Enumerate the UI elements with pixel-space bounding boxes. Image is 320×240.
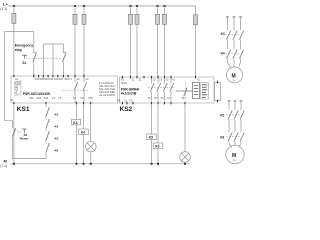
- svg-text:L+: L+: [3, 2, 8, 7]
- KS2 internal output contact 41-42: [170, 78, 174, 101]
- fuse F3: [82, 14, 86, 24]
- KS2 internal output contact 23-24: [157, 78, 161, 101]
- svg-text:A2: A2: [10, 98, 14, 102]
- dashed actuation line KS2 outputs: [148, 87, 174, 89]
- dashed linkage S1: [26, 57, 63, 59]
- svg-text:Y2: Y2: [58, 96, 62, 100]
- KS2 top terminal labels: [121, 78, 201, 82]
- wire M return rail: [11, 163, 191, 165]
- wire corner L+ rail down to KS2 right section: [195, 6, 197, 77]
- wire KS2 38 to lamp P2: [184, 104, 186, 152]
- svg-text:Y35: Y35: [88, 96, 93, 100]
- node L+ label: [0, 2, 8, 11]
- wire coil K5 to rail: [151, 140, 153, 164]
- wire reset loop top horizontal: [5, 31, 34, 33]
- svg-text:Y2: Y2: [129, 98, 133, 102]
- coil K6: [153, 143, 163, 149]
- wire lamp P1 to rail: [90, 152, 92, 164]
- fuse F7: [163, 14, 167, 24]
- wire S34 drop: [42, 44, 44, 76]
- motor M2: [226, 145, 244, 163]
- KS2 name: [121, 87, 140, 95]
- KS2 internal output contact 33-34: [163, 78, 167, 101]
- svg-text:(7.1): (7.1): [0, 164, 7, 168]
- KS2 internal coupling line: [176, 90, 193, 92]
- KS1 internal output contact 13-14: [74, 78, 78, 104]
- contact K5 power poles: [220, 111, 244, 120]
- motor branch 1 phase wires: [226, 16, 242, 18]
- KS2 internal logic box 2: [201, 83, 209, 100]
- switch S1 actuator: [22, 55, 27, 65]
- wire KS2 terminal 24 drop: [164, 6, 166, 77]
- svg-text:3~: 3~: [233, 78, 237, 82]
- wire 23 output drop: [83, 6, 85, 76]
- KS2 internal logic box 1: [193, 83, 200, 99]
- svg-text:K6: K6: [55, 148, 59, 152]
- KS1 top terminal ticks: [14, 75, 84, 78]
- lamp P2: [180, 152, 191, 163]
- svg-text:Emergency: Emergency: [15, 44, 33, 48]
- fuse F6: [156, 14, 160, 24]
- KS2 bottom terminal ticks: [122, 102, 185, 105]
- svg-text:K3: K3: [221, 32, 225, 36]
- contact S1 channel 1 (NC): [33, 32, 37, 77]
- svg-text:K6: K6: [220, 135, 224, 139]
- reset button S2 contact: [12, 121, 15, 159]
- wire coil K6 to rail: [157, 149, 159, 164]
- feedback contact K4: [46, 119, 59, 131]
- svg-text:S1: S1: [22, 61, 26, 65]
- wire lamp P2 to rail: [184, 162, 186, 164]
- wire reset loop left vertical: [4, 32, 6, 121]
- feedback contact K6: [46, 143, 59, 159]
- KS1 top terminal labels: [15, 77, 89, 81]
- svg-text:K3: K3: [55, 112, 59, 116]
- coil K5: [147, 134, 157, 140]
- wire S21 drop: [52, 44, 54, 76]
- KS1 internal table text: [99, 81, 116, 97]
- reset button S2 actuator: [14, 129, 28, 141]
- contact S1 channel 2 (NC): [62, 44, 66, 76]
- svg-text:KS2: KS2: [120, 106, 133, 113]
- wire 24 to coil K4: [83, 104, 85, 129]
- svg-text:KS1: KS1: [17, 106, 30, 113]
- KS1 left margin small text: [14, 80, 20, 97]
- KS1 bottom terminal labels: [10, 96, 93, 102]
- fuse F8 on KS2 right drop: [194, 15, 198, 25]
- svg-text:A2: A2: [117, 98, 121, 102]
- KS1 left margin divider: [20, 80, 22, 98]
- svg-text:3~: 3~: [233, 158, 237, 162]
- fuse F5: [135, 14, 139, 24]
- svg-text:K3: K3: [73, 121, 77, 125]
- wire KS2 terminal 12 drop: [136, 6, 138, 77]
- motor M1: [227, 67, 243, 83]
- svg-text:K5: K5: [220, 113, 224, 117]
- wire reset loop jog: [5, 121, 13, 127]
- svg-text:(1.1): (1.1): [0, 7, 7, 11]
- KS2 internal output contact 13-14: [150, 78, 154, 101]
- node M label: [0, 159, 7, 168]
- svg-text:K5: K5: [55, 136, 59, 140]
- motor branch 2 phase wires: [228, 100, 243, 102]
- svg-text:S12: S12: [29, 96, 34, 100]
- svg-text:Y1: Y1: [124, 98, 128, 102]
- svg-text:Y1: Y1: [52, 96, 56, 100]
- dashed actuation line KS1 outputs: [62, 90, 88, 92]
- svg-text:K4: K4: [81, 131, 85, 135]
- svg-text:S34: S34: [44, 96, 49, 100]
- svg-text:4x1/2x2/B: 4x1/2x2/B: [121, 92, 137, 96]
- KS2 top terminal ticks: [122, 76, 195, 79]
- svg-text:A1-A2 24VDC: A1-A2 24VDC: [99, 93, 115, 97]
- feedback contact K5: [46, 131, 59, 143]
- lamp P1: [86, 141, 97, 152]
- wire S-loop horizontal: [43, 43, 63, 45]
- KS2 bottom terminal labels: [117, 96, 185, 102]
- wire A2 to bottom rail: [13, 104, 15, 164]
- wire 13 output drop: [74, 6, 76, 76]
- KS1 internal output contact 23-24: [83, 78, 87, 104]
- wire KS2 terminal 23 drop: [157, 6, 159, 77]
- junction dots on L+ rail: [13, 5, 166, 7]
- contact K6 power poles: [220, 133, 244, 142]
- KS2 right narrow box: [215, 81, 221, 103]
- wire coil K4 to rail: [83, 135, 85, 164]
- contact K4 power poles: [221, 50, 244, 59]
- svg-text:Y1: Y1: [69, 77, 73, 81]
- svg-text:S22: S22: [37, 96, 42, 100]
- svg-text:(24V): (24V): [121, 81, 127, 85]
- fuse F1: [12, 13, 16, 23]
- wire 14 to coil K3: [75, 104, 77, 119]
- svg-text:Y2: Y2: [197, 78, 201, 82]
- relay block KS2 outline: [120, 77, 215, 103]
- svg-text:K6: K6: [155, 145, 159, 149]
- wire reset loop bottom horizontal: [12, 158, 46, 160]
- svg-text:stop: stop: [15, 48, 22, 52]
- svg-text:Reset: Reset: [20, 137, 28, 141]
- fuse F2: [73, 14, 77, 24]
- wire coil K3 to rail: [75, 125, 77, 164]
- wire A1 drop: [13, 6, 15, 76]
- feedback contact K3: [46, 107, 59, 119]
- wire KS2 24 to coil K6: [157, 104, 159, 143]
- KS1 bottom terminal ticks: [14, 102, 91, 105]
- wire KS2 terminal 11 drop: [130, 6, 132, 77]
- contact K3 power poles: [221, 31, 244, 40]
- KS2 internal dashed line with contact: [184, 82, 187, 99]
- svg-text:K4: K4: [55, 124, 59, 128]
- svg-text:S21: S21: [59, 77, 64, 81]
- svg-text:K5: K5: [149, 136, 153, 140]
- wire Y35 to lamp P1: [90, 104, 92, 141]
- junction dots on M rail: [13, 163, 186, 165]
- coil K3: [72, 119, 81, 125]
- svg-text:PSR-URM4/: PSR-URM4/: [121, 87, 140, 91]
- wire KS2 14 to coil K5: [151, 104, 153, 134]
- wire L+ supply rail: [8, 5, 196, 7]
- feedback chain wire top: [45, 104, 47, 107]
- fuse F4: [129, 14, 133, 24]
- svg-text:K4: K4: [221, 52, 225, 56]
- relay block KS1 outline: [11, 76, 118, 103]
- coil K4: [79, 129, 89, 135]
- emergency stop text: [15, 44, 33, 53]
- svg-text:PSR-SDC4/2x1/B: PSR-SDC4/2x1/B: [23, 92, 51, 96]
- svg-text:OUT: OUT: [14, 93, 20, 97]
